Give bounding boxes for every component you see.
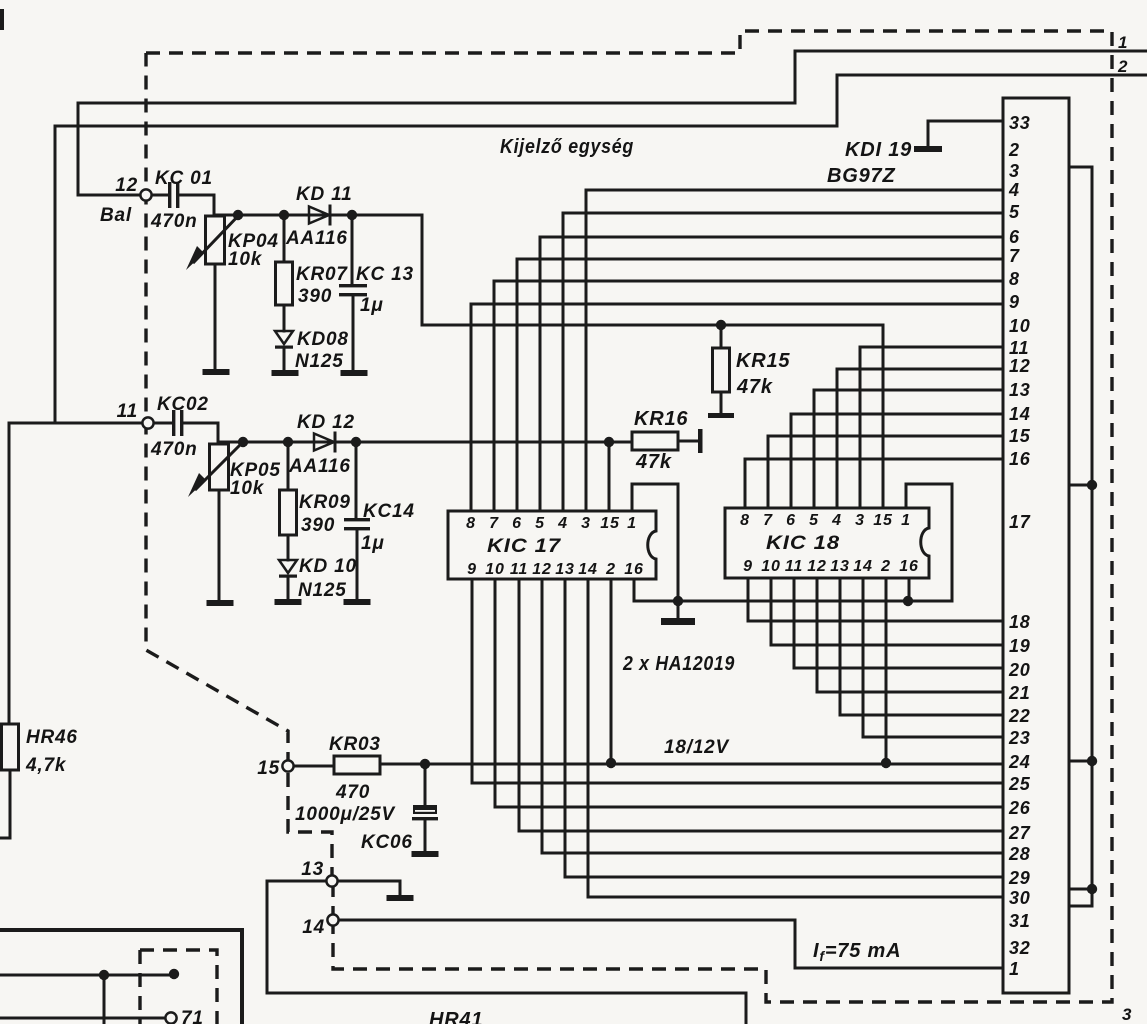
svg-text:27: 27 (1008, 823, 1031, 843)
wire to terminal 11 (54, 126, 57, 423)
svg-text:19: 19 (1009, 636, 1031, 656)
svg-text:Bal: Bal (100, 205, 132, 226)
svg-text:KR15: KR15 (736, 350, 790, 372)
svg-text:Kijelző egység: Kijelző egység (500, 136, 634, 158)
resistor KR07 (276, 262, 293, 305)
svg-text:15: 15 (257, 758, 280, 779)
svg-text:22: 22 (1008, 706, 1031, 726)
wire KIC18 pin 12 to connector (817, 578, 1003, 692)
potentiometer KP05 (210, 444, 229, 490)
svg-text:13: 13 (301, 859, 324, 880)
wire net 1 (to terminal 1) (78, 51, 1147, 103)
wire KR07 to KD08 (283, 305, 286, 331)
junction ground rail (673, 596, 683, 606)
svg-text:KD 10: KD 10 (299, 556, 357, 577)
wire KIC18 pin 16 to ground rail (908, 578, 911, 601)
wire KIC17 pin 8 to connector (471, 304, 1003, 511)
svg-text:11: 11 (785, 558, 803, 575)
wire connector to KIC18 pin 8 (745, 459, 1003, 508)
svg-text:KR03: KR03 (329, 734, 381, 755)
svg-text:47k: 47k (736, 376, 773, 398)
wire connector to KIC18 pin 7 (768, 436, 1003, 508)
svg-text:12: 12 (1009, 356, 1031, 376)
ground (KC14) (344, 599, 371, 605)
svg-text:47k: 47k (635, 451, 672, 473)
wire KIC18 pin 14 to connector (863, 578, 1003, 737)
ground (ICs) (661, 618, 695, 625)
diode KD08 (275, 331, 293, 344)
svg-text:6: 6 (1009, 227, 1020, 247)
diode KD12 (314, 434, 334, 451)
svg-text:KR16: KR16 (634, 408, 688, 430)
wire KIC18 pin 13 to connector (840, 578, 1003, 715)
svg-text:2: 2 (880, 558, 891, 575)
wire KC06 to ground (424, 820, 427, 852)
terminal 14 (327, 914, 338, 925)
wire to KR07 (283, 215, 286, 262)
svg-text:4,7k: 4,7k (25, 755, 67, 776)
wire KIC18 pin 1 hook (906, 484, 952, 601)
svg-text:8: 8 (740, 512, 750, 529)
junction KC14/node (351, 437, 361, 447)
svg-text:BG97Z: BG97Z (827, 165, 895, 187)
svg-text:KC06: KC06 (361, 832, 413, 853)
svg-text:16: 16 (624, 561, 643, 578)
svg-text:2: 2 (1117, 57, 1128, 76)
wire to ground symbol (677, 601, 680, 619)
svg-text:32: 32 (1009, 938, 1031, 958)
svg-text:2: 2 (605, 561, 616, 578)
stub pin 24 to right bus (1069, 760, 1092, 763)
junction KC13/node (347, 210, 357, 220)
wire down to HR46 (8, 423, 11, 724)
junction right bus / pin 30 (1087, 884, 1097, 894)
svg-text:3: 3 (1009, 161, 1020, 181)
svg-text:13: 13 (830, 558, 849, 575)
svg-text:KC14: KC14 (363, 501, 415, 522)
wire connector pin 33 (928, 120, 1003, 123)
svg-text:24: 24 (1008, 752, 1031, 772)
svg-text:KR09: KR09 (299, 492, 351, 513)
svg-text:AA116: AA116 (288, 456, 351, 477)
svg-text:16: 16 (1009, 449, 1031, 469)
capacitor KC02 (172, 410, 175, 436)
wire channel-2 node (219, 441, 609, 444)
wire KIC17 pin 11 to connector (519, 579, 1003, 831)
wire net 2 (to terminal 2) (55, 75, 1147, 126)
svg-text:14: 14 (853, 558, 872, 575)
wire KC13 to ground (352, 296, 355, 371)
svg-text:N125: N125 (295, 351, 344, 372)
wire connector pin 3 common right bus (1069, 167, 1092, 906)
svg-text:25: 25 (1008, 774, 1031, 794)
svg-text:3: 3 (855, 512, 865, 529)
stub pin 17 to right bus (1069, 484, 1092, 487)
wire to KC13 (351, 215, 354, 284)
wire KP04 to ground (214, 264, 217, 370)
chassis bar (KR15) (708, 413, 734, 418)
contact bar KDI 19 (914, 146, 942, 152)
terminal 15 (282, 760, 293, 771)
svg-text:1: 1 (1118, 33, 1128, 52)
svg-text:15: 15 (873, 512, 893, 529)
wire KIC17 pin 14 to connector (588, 579, 1003, 897)
diode KD11 (309, 207, 329, 224)
wire KIC18 pin 11 to connector (794, 578, 1003, 668)
svg-text:9: 9 (743, 558, 753, 575)
junction bottom-left 1 (99, 970, 109, 980)
wire KR16 to contact bar (678, 440, 698, 443)
junction KC06/rail (420, 759, 430, 769)
svg-text:7: 7 (489, 515, 499, 532)
svg-text:1: 1 (1009, 959, 1020, 979)
capacitor KC01 (168, 182, 171, 208)
svg-text:KIC 17: KIC 17 (487, 536, 562, 557)
svg-text:470n: 470n (150, 439, 198, 460)
junction right bus / pin 17 (1087, 480, 1097, 490)
KP04 wiper arrow (194, 214, 240, 262)
svg-text:HR41: HR41 (429, 1009, 483, 1024)
junction KIC17 pin2 / 18-12V rail (606, 758, 616, 768)
diode KD10 (279, 560, 297, 573)
ground (KD08) (272, 370, 299, 376)
junction right bus / pin 24 (1087, 756, 1097, 766)
svg-text:8: 8 (1009, 269, 1020, 289)
svg-text:20: 20 (1008, 660, 1031, 680)
capacitor KC13 (339, 284, 367, 287)
connector KCS (33-pole) body (1003, 98, 1069, 993)
wire terminal11 node to HR46 (9, 422, 142, 425)
svg-text:11: 11 (510, 561, 528, 578)
wire KIC18 pin 10 to connector (771, 578, 1003, 645)
wire term15 to KR03 (294, 765, 334, 768)
wire KIC17 pin 15 feed (608, 442, 611, 511)
svg-text:1: 1 (627, 515, 637, 532)
junction KR07/node (279, 210, 289, 220)
svg-text:KD 12: KD 12 (297, 412, 355, 433)
svg-text:KD08: KD08 (297, 329, 349, 350)
wire down to KIC18 pin 15 (882, 325, 885, 508)
svg-text:31: 31 (1009, 911, 1031, 931)
wire to KC14 (355, 442, 358, 518)
wire to terminal 71 (0, 1017, 165, 1020)
svg-text:71: 71 (181, 1008, 204, 1024)
svg-text:5: 5 (809, 512, 819, 529)
svg-text:4: 4 (1008, 180, 1020, 200)
svg-text:11: 11 (117, 401, 138, 422)
wire term13 to HR41 box (267, 881, 746, 1024)
svg-text:N125: N125 (298, 580, 347, 601)
svg-text:KC 01: KC 01 (155, 168, 213, 189)
svg-text:28: 28 (1008, 844, 1031, 864)
svg-text:KDI 19: KDI 19 (845, 139, 912, 161)
svg-text:4: 4 (831, 512, 842, 529)
wire connector to KIC18 pin 6 (791, 414, 1003, 508)
svg-text:KD 11: KD 11 (296, 184, 352, 205)
junction bottom-left 2 (169, 969, 179, 979)
svg-text:7: 7 (1009, 246, 1020, 266)
svg-text:KR07: KR07 (296, 264, 348, 285)
wire connector to KIC18 pin 4 (837, 369, 1003, 508)
wire bottom-left node (0, 974, 174, 977)
wire KIC17 pin 1 hook (632, 484, 678, 601)
svg-text:KC 13: KC 13 (356, 264, 414, 285)
edge artifact (0, 9, 4, 30)
wire KIC17 pin 4 to connector (563, 213, 1003, 511)
svg-text:23: 23 (1008, 728, 1031, 748)
wire KP05 to ground (218, 490, 221, 601)
svg-text:HR46: HR46 (26, 727, 78, 748)
svg-text:2: 2 (1008, 140, 1020, 160)
svg-text:1μ: 1μ (361, 533, 385, 554)
contact bar (KR16 right) (698, 429, 703, 453)
svg-text:470n: 470n (150, 211, 198, 232)
svg-text:14: 14 (302, 917, 325, 938)
ground (KC13) (341, 370, 368, 376)
terminal 71 (165, 1012, 176, 1023)
svg-text:390: 390 (298, 286, 332, 307)
svg-text:13: 13 (555, 561, 574, 578)
KP05 wiper arrow (196, 441, 244, 489)
resistor KR16 (632, 432, 678, 450)
wire KR15 to chassis bar (720, 392, 723, 414)
junction KP04 wiper/node (233, 210, 243, 220)
wire KC02 to KP05 (184, 423, 218, 444)
resistor KR15 (713, 348, 730, 392)
svg-text:7: 7 (763, 512, 773, 529)
svg-text:10: 10 (485, 561, 504, 578)
svg-text:5: 5 (535, 515, 545, 532)
capacitor KC06 (electrolytic 1000u/25V) (413, 805, 437, 814)
junction KR09/node (283, 437, 293, 447)
wire bottom-left down (103, 975, 106, 1024)
junction KP05 wiper/node (238, 437, 248, 447)
svg-text:15: 15 (1009, 426, 1031, 446)
svg-text:18: 18 (1009, 612, 1031, 632)
wire to KR15 (720, 325, 723, 348)
wire to KR09 (287, 442, 290, 490)
ground (KP04) (203, 369, 230, 375)
op-amp IC KIC17 (HA12019) body (448, 511, 656, 579)
svg-text:26: 26 (1008, 798, 1031, 818)
dashed unit boundary (146, 31, 1112, 1002)
wire 18/12V supply rail to connector pin 24 (380, 763, 1003, 766)
svg-text:9: 9 (1009, 292, 1020, 312)
svg-text:10k: 10k (230, 478, 265, 499)
resistor KR09 (280, 490, 297, 535)
svg-text:12: 12 (115, 175, 138, 196)
wire channel-1 node (215, 214, 422, 217)
svg-text:9: 9 (467, 561, 477, 578)
svg-text:KC02: KC02 (157, 394, 209, 415)
stub pin 30 to right bus (1069, 888, 1092, 891)
HR41 unit box corner (0, 930, 242, 1024)
wire KIC18 pin 9 to connector (748, 578, 1003, 621)
dashed sub-box (140, 950, 217, 1024)
wire channel-1 to KIC18 pin15 / KR15 (422, 215, 883, 325)
junction KIC18 pin16/ground rail (903, 596, 913, 606)
resistor HR46 (2, 724, 19, 770)
wire KC14 to ground (356, 530, 359, 600)
svg-text:1000μ/25V: 1000μ/25V (295, 804, 396, 825)
svg-text:10: 10 (761, 558, 780, 575)
junction KIC18 pin2 / 18-12V rail (881, 758, 891, 768)
svg-text:14: 14 (1009, 404, 1031, 424)
svg-text:10: 10 (1009, 316, 1031, 336)
svg-text:21: 21 (1008, 683, 1031, 703)
terminal 13 (326, 875, 337, 886)
wire connector to KIC18 pin 5 (814, 390, 1003, 508)
wire KIC17 pin 12 to connector (542, 579, 1003, 853)
junction KR16/KIC17 pin15 (604, 437, 614, 447)
wire KR09 to KD10 (287, 535, 290, 560)
wire connector to KIC18 pin 3 (860, 347, 1003, 508)
svg-text:13: 13 (1009, 380, 1031, 400)
svg-text:390: 390 (301, 515, 335, 536)
wire KIC17 pin 10 to connector (495, 579, 1003, 807)
ground rail between ICs (634, 579, 952, 601)
svg-text:11: 11 (1009, 338, 1029, 358)
svg-text:6: 6 (512, 515, 522, 532)
svg-text:5: 5 (1009, 202, 1020, 222)
wire KIC18 pin 2 to supply rail (885, 578, 888, 763)
capacitor KC14 (344, 518, 370, 521)
wire KIC17 pin 13 to connector (565, 579, 1003, 877)
resistor KR03 (334, 756, 380, 774)
svg-text:AA116: AA116 (285, 228, 348, 249)
wire KIC17 pin 7 to connector (494, 281, 1003, 511)
wire KIC17 pin 2 to supply rail (610, 579, 613, 763)
wire KD08 to ground (283, 349, 286, 371)
svg-text:3: 3 (581, 515, 591, 532)
wire term14 to connector pin 1 (339, 920, 1003, 968)
svg-text:12: 12 (532, 561, 551, 578)
wire to KC06 (424, 764, 427, 806)
svg-text:12: 12 (807, 558, 826, 575)
ground (term13) (387, 895, 414, 901)
wire to terminal 12 (78, 103, 141, 195)
svg-text:33: 33 (1009, 113, 1031, 133)
wire KIC17 pin 5 to connector (540, 237, 1003, 511)
ground (KC06) (412, 851, 439, 857)
wire term12 to KC01 (152, 194, 168, 197)
svg-text:1μ: 1μ (360, 295, 384, 316)
wire KIC17 pin 6 to connector (517, 259, 1003, 511)
svg-text:6: 6 (786, 512, 796, 529)
junction KR15 on channel-1 wire (716, 320, 726, 330)
wire term13 to ground (338, 881, 400, 895)
wire to KDI19 contact (927, 121, 930, 146)
svg-text:1: 1 (901, 512, 911, 529)
wire KC01 to KP04 (180, 195, 214, 216)
svg-text:17: 17 (1009, 512, 1031, 532)
svg-text:KIC 18: KIC 18 (766, 533, 840, 554)
wire term11 to KC02 (154, 422, 172, 425)
svg-text:29: 29 (1008, 868, 1031, 888)
svg-text:14: 14 (578, 561, 597, 578)
svg-text:30: 30 (1009, 888, 1031, 908)
op-amp IC KIC18 (HA12019) body (725, 508, 929, 578)
svg-text:4: 4 (557, 515, 568, 532)
ground (KD10) (275, 599, 302, 605)
svg-text:3: 3 (1122, 1005, 1132, 1024)
wire KIC17 pin 3 to connector (586, 190, 1003, 511)
svg-text:470: 470 (335, 782, 370, 803)
terminal 12 (Bal) (140, 189, 151, 200)
potentiometer KP04 (206, 216, 225, 264)
svg-text:15: 15 (600, 515, 620, 532)
svg-text:8: 8 (466, 515, 476, 532)
terminal 11 (142, 417, 153, 428)
svg-text:If=75 mA: If=75 mA (813, 940, 901, 964)
svg-text:10k: 10k (228, 249, 263, 270)
svg-text:16: 16 (899, 558, 918, 575)
wire KD10 to ground (287, 578, 290, 600)
ground (KP05) (207, 600, 234, 606)
wire KIC17 pin 9 to connector (472, 579, 1003, 783)
wire HR46 exit left (0, 770, 10, 838)
wire to KR16 (609, 441, 632, 444)
svg-text:2 x HA12019: 2 x HA12019 (622, 653, 735, 675)
svg-text:18/12V: 18/12V (664, 737, 730, 758)
